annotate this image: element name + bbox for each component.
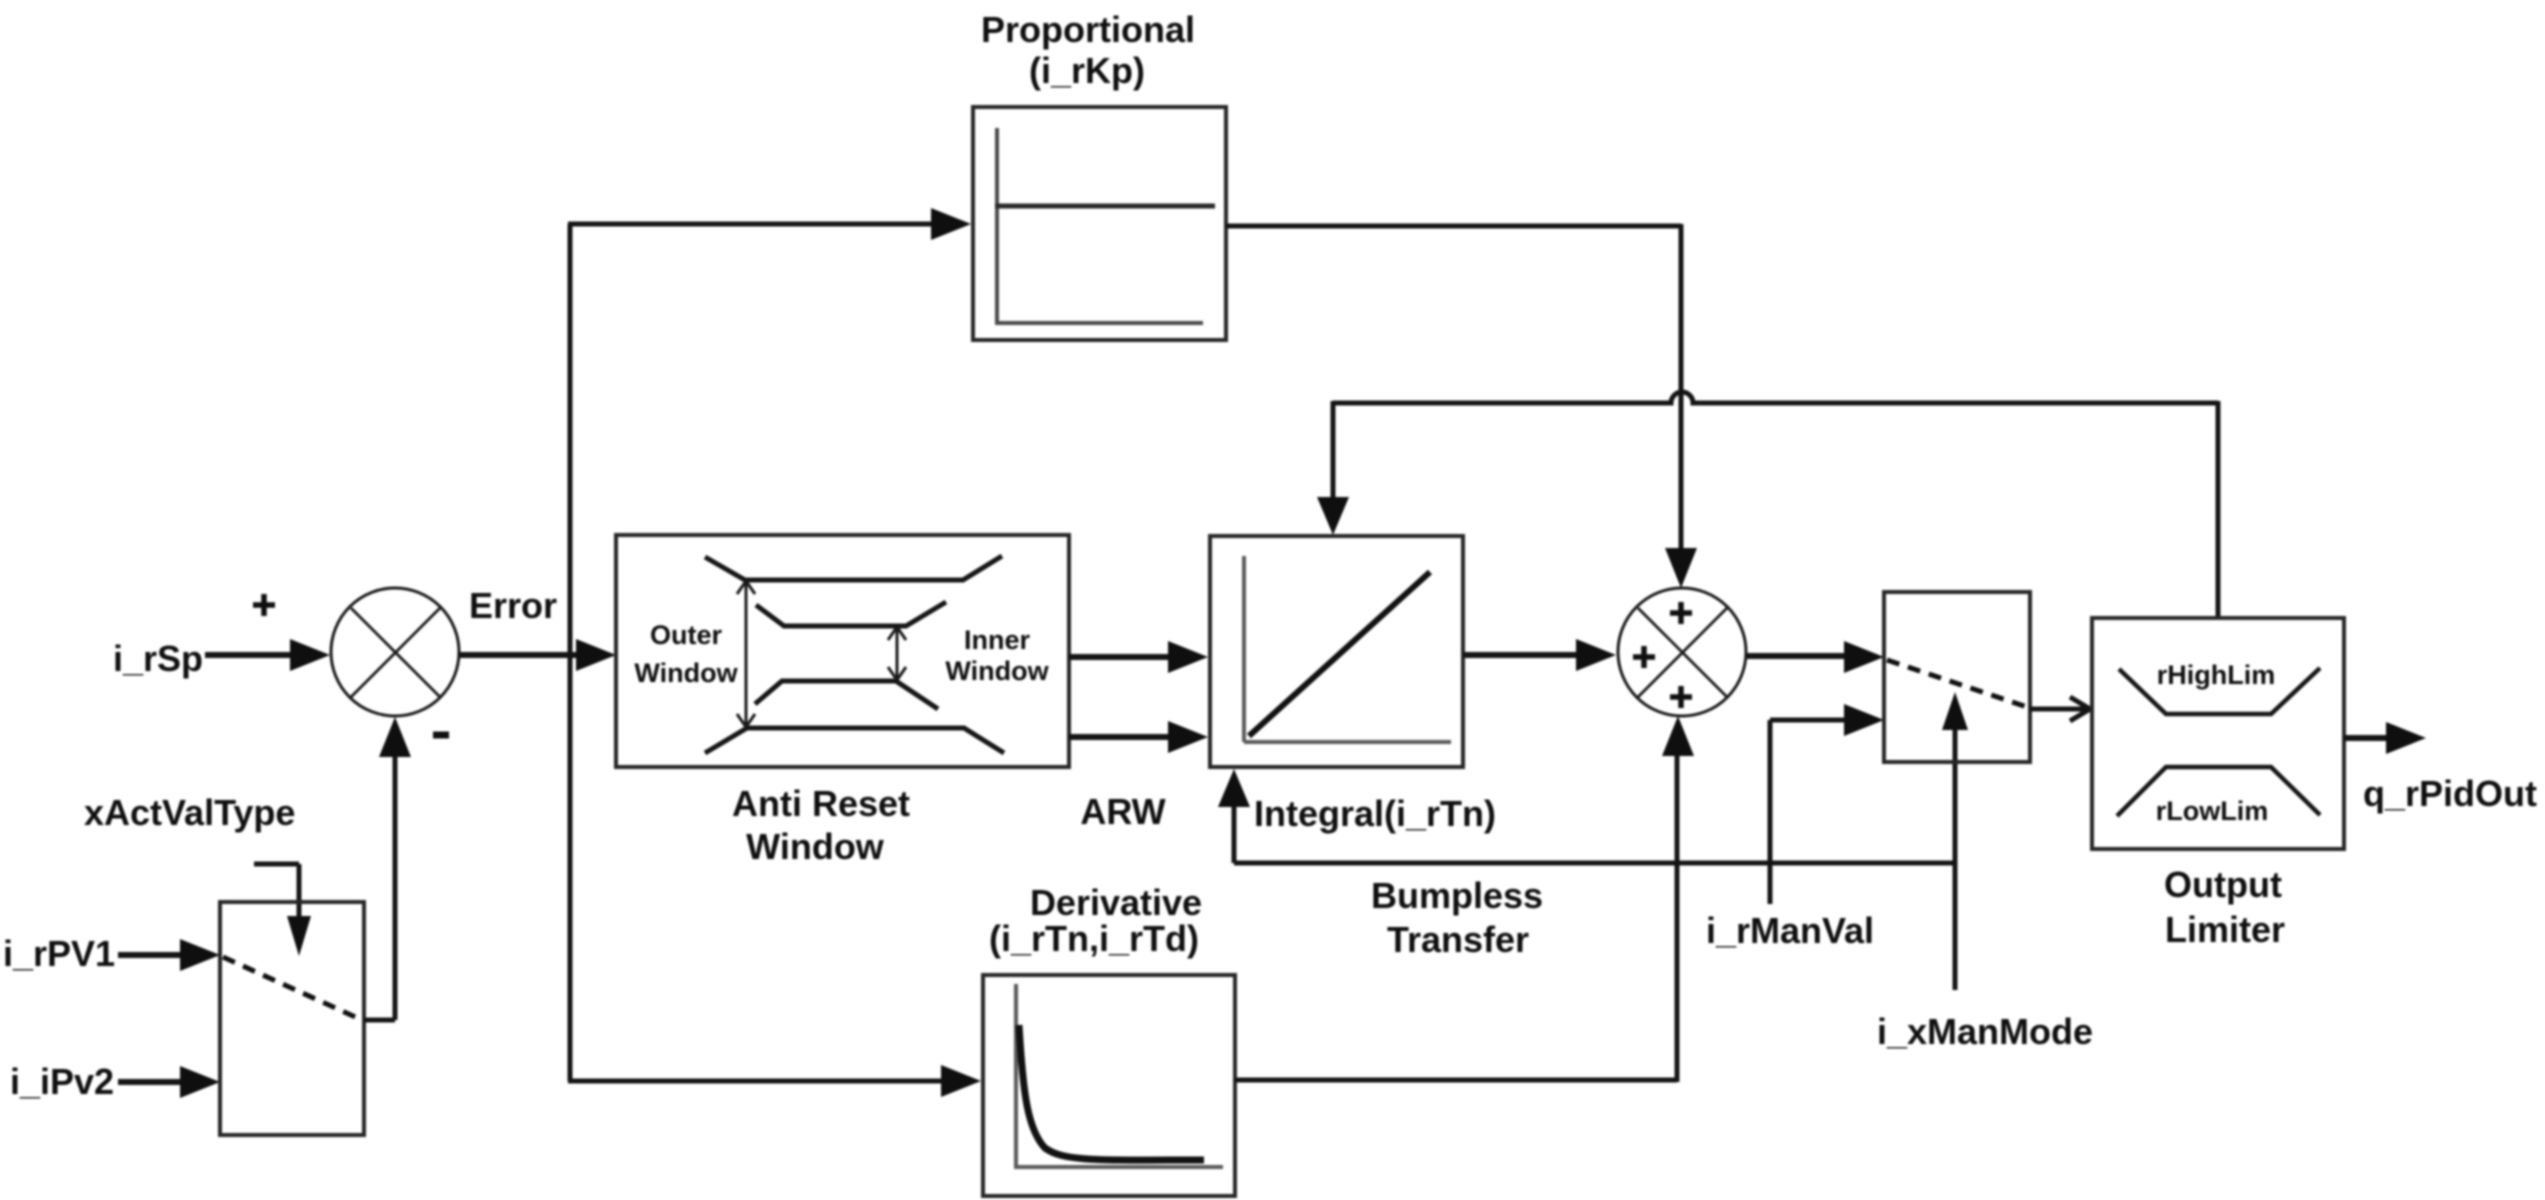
wire q_rPidOut output [2344,722,2426,754]
Anti Reset Window caption [732,783,910,867]
wire Integral output to summing junction 2 [1463,639,1616,671]
ARW inner window bottom shape [755,681,938,709]
svg-text:Anti Reset: Anti Reset [732,783,910,824]
high limit shape [2119,668,2320,714]
svg-text:(i_rKp): (i_rKp) [1029,50,1145,91]
svg-text:Window: Window [634,658,738,688]
rHighLim label [2157,660,2276,690]
plus top in summing junction 2 [1670,602,1692,624]
wire Proportional output to summing junction 2 [1226,224,1697,588]
manual/auto switch box [1884,592,2030,762]
node i_iPv2 label [10,1061,114,1102]
wire branch to Derivative [568,1065,981,1097]
Proportional block box [973,107,1226,340]
low limit shape [2117,767,2320,816]
svg-text:rHighLim: rHighLim [2157,660,2276,690]
wire i_rPV1 to selector [118,939,220,971]
plus sign at summing junction 1 [253,594,275,616]
Output Limiter box [2092,618,2344,849]
Integral caption [1254,793,1496,834]
wire switch output to output limiter [2030,697,2090,721]
switch dashed contact [1887,660,2027,707]
node ARW label [1080,791,1165,832]
svg-text:Output: Output [2164,864,2282,905]
svg-text:i_rManVal: i_rManVal [1706,910,1874,951]
Output Limiter caption [2164,864,2285,950]
ARW outer double arrow [737,581,755,727]
svg-text:xActValType: xActValType [84,792,295,833]
ARW Inner Window label [945,625,1049,686]
svg-text:Transfer: Transfer [1387,919,1529,960]
svg-text:q_rPidOut: q_rPidOut [2363,773,2537,814]
summing junction 2 (PID sum) [1618,588,1746,716]
svg-text:Inner: Inner [964,625,1031,655]
svg-text:(i_rTn,i_rTd): (i_rTn,i_rTd) [989,918,1199,959]
Derivative graph [1016,984,1223,1169]
Anti Reset Window box [616,535,1069,767]
node i_rSp label [113,638,203,679]
Proportional block label [981,9,1195,91]
wire ARW upper output to Integral [1069,641,1208,673]
Derivative captions [989,882,1202,959]
wire bumpless transfer from i_xManMode riser to Integral bottom [1218,769,1955,863]
ARW outer window top shape [705,556,1002,580]
rLowLim label [2156,796,2269,826]
wire i_rManVal to switch [1770,704,1884,904]
svg-text:ARW: ARW [1080,791,1165,832]
wire i_xManMode riser to switch [1942,692,1968,990]
Integral graph [1244,556,1451,742]
wire Derivative output to summing junction 2 [1235,716,1694,1082]
plus bottom in summing junction 2 [1670,686,1692,708]
wire ARW lower output to Integral [1069,721,1208,753]
svg-text:i_rPV1: i_rPV1 [3,933,115,974]
wire Error branch vertical [568,224,573,1081]
wire i_iPv2 to selector [118,1066,220,1098]
svg-text:i_rSp: i_rSp [113,638,203,679]
wire selector output to summing junction 1 [364,717,411,1020]
minus sign at summing junction 1 [433,732,449,739]
Bumpless Transfer caption [1371,875,1543,960]
selector dashed contact [223,957,362,1020]
node Error label [469,585,557,626]
svg-text:Error: Error [469,585,557,626]
svg-text:Proportional: Proportional [981,9,1195,50]
svg-text:rLowLim: rLowLim [2156,796,2269,826]
svg-text:i_xManMode: i_xManMode [1877,1011,2093,1052]
actual value selector box [220,902,364,1135]
wire feedback from output limiter top [1317,392,2218,618]
node i_rPV1 label [3,933,115,974]
svg-text:Bumpless: Bumpless [1371,875,1543,916]
node xActValType label [84,792,295,833]
ARW Outer Window label [634,620,738,688]
plus left in summing junction 2 [1633,646,1655,668]
wire i_rSp to summing junction [205,639,330,671]
ARW outer window bottom shape [705,728,1004,753]
Integral block box [1210,536,1463,767]
svg-text:Derivative: Derivative [1030,882,1202,923]
node i_xManMode label [1877,1011,2093,1052]
ARW inner double arrow [888,627,906,680]
svg-text:Window: Window [746,826,885,867]
wire branch to Proportional [568,208,971,240]
svg-text:Limiter: Limiter [2165,909,2285,950]
ARW inner window top shape [756,602,946,626]
Derivative block box [983,975,1235,1196]
node q_rPidOut label [2363,773,2537,814]
wire xActValType to selector [254,864,311,956]
Proportional graph [995,128,1215,325]
summing junction 1 (error comparator) [331,588,459,716]
svg-text:Integral(i_rTn): Integral(i_rTn) [1254,793,1496,834]
node i_rManVal label [1706,910,1874,951]
wire summing junction 2 to switch [1746,641,1884,673]
svg-text:Outer: Outer [650,620,723,650]
svg-text:i_iPv2: i_iPv2 [10,1061,114,1102]
svg-text:Window: Window [945,656,1049,686]
wire Error from summing junction to ARW box [459,639,616,671]
